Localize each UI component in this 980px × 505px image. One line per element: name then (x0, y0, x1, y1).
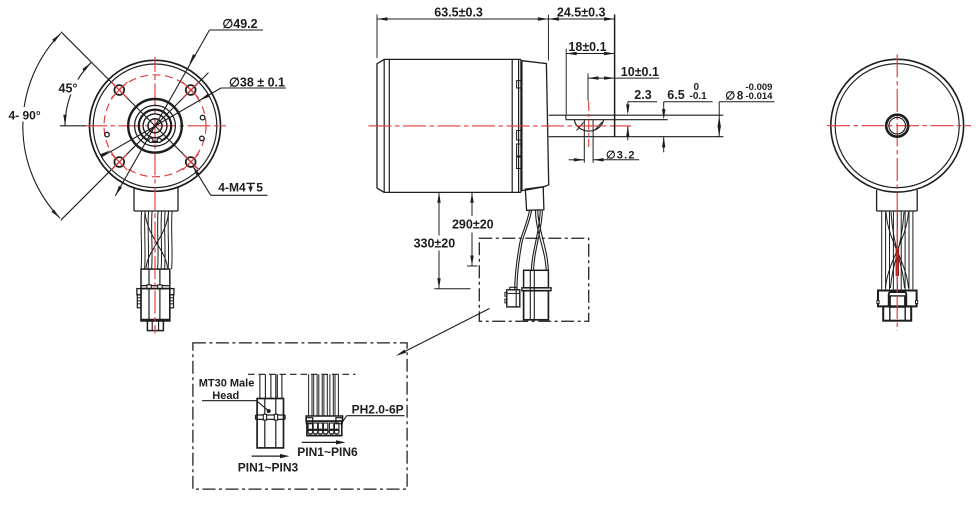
svg-text:∅49.2: ∅49.2 (222, 17, 257, 31)
svg-text:MT30 Male: MT30 Male (199, 378, 255, 390)
svg-text:2.3: 2.3 (634, 88, 651, 102)
svg-text:∅38 ± 0.1: ∅38 ± 0.1 (229, 75, 285, 89)
svg-text:PIN1~PIN6: PIN1~PIN6 (297, 445, 358, 459)
svg-text:290±20: 290±20 (452, 218, 494, 232)
svg-text:5: 5 (256, 181, 263, 195)
svg-text:24.5±0.3: 24.5±0.3 (557, 5, 606, 19)
svg-text:Head: Head (212, 390, 239, 402)
svg-text:4-M4: 4-M4 (218, 181, 246, 195)
svg-text:45°: 45° (59, 82, 78, 96)
svg-text:PH2.0-6P: PH2.0-6P (352, 403, 404, 417)
svg-text:18±0.1: 18±0.1 (568, 40, 606, 54)
svg-text:330±20: 330±20 (414, 236, 456, 250)
svg-text:PIN1~PIN3: PIN1~PIN3 (238, 461, 299, 475)
svg-text:-0.1: -0.1 (690, 91, 708, 102)
svg-text:∅8: ∅8 (725, 90, 744, 102)
svg-text:6.5: 6.5 (667, 88, 684, 102)
svg-text:63.5±0.3: 63.5±0.3 (434, 5, 483, 19)
svg-text:10±0.1: 10±0.1 (621, 65, 659, 79)
svg-text:4- 90°: 4- 90° (9, 109, 41, 123)
svg-text:∅3.2: ∅3.2 (606, 149, 636, 161)
svg-text:-0.014: -0.014 (746, 91, 774, 102)
